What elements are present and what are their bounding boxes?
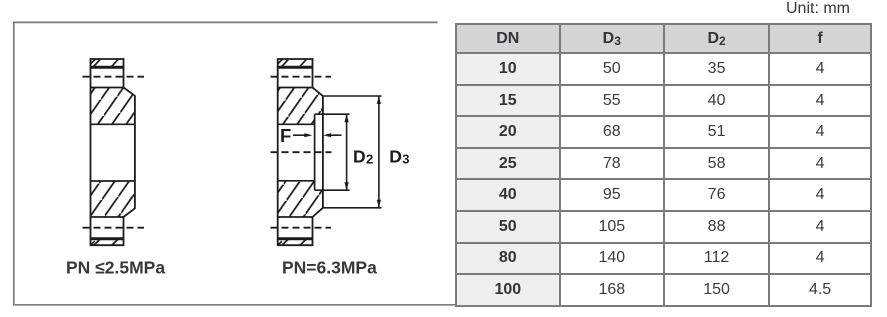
flange body hatch top [91,88,135,125]
rim hatch band top [91,59,118,67]
rim/body junction line bottom [278,216,313,218]
rim/body junction line bottom [91,216,124,218]
svg-text:PN ≤2.5MPa: PN ≤2.5MPa [66,257,165,277]
svg-text:D: D [389,146,402,166]
flange outline with raised face [278,59,323,245]
frame border [14,22,456,304]
D3 extension bottom [323,207,382,209]
D2 arrow down [344,182,348,190]
D2 dimension line [346,114,348,190]
bore line top [278,123,315,125]
unit label [786,0,850,18]
D3 arrow down [377,200,381,208]
svg-text:2: 2 [366,151,373,166]
flange body hatch bottom [91,181,135,217]
dimension table [455,23,872,307]
rim hatch band bottom [278,239,306,245]
bore line bottom [91,180,135,182]
recess wall [314,114,316,190]
middle centerline [271,151,332,153]
bolt centerline top [83,76,145,78]
svg-text:3: 3 [402,151,409,166]
bore line bottom [278,180,315,182]
D2 arrow up [344,114,348,122]
rim band inner edge bottom (thick) [278,237,313,240]
svg-text:PN=6.3MPa: PN=6.3MPa [282,257,377,277]
D3 arrow up [377,96,381,104]
rim band inner edge bottom (thick) [91,237,124,240]
flange body hatch top [278,88,323,125]
F arrow left-pointing [323,133,331,137]
rim hatch band top [278,59,306,67]
F arrow right-pointing [304,133,312,137]
svg-text:F: F [280,125,291,146]
D3 extension top [323,95,382,97]
rim/body junction line top [278,87,313,89]
F dimension leader left [293,134,306,136]
F dimension leader right [329,134,342,136]
D3 dimension line [378,96,380,208]
recess bottom edge / D2 extension bottom [315,189,350,191]
flange outline [91,59,135,245]
svg-text:D: D [353,146,366,166]
flange body hatch bottom [278,181,323,217]
bolt centerline bottom [271,227,332,229]
bolt centerline bottom [83,227,145,229]
recess top edge / D2 extension top [315,113,350,115]
rim hatch band bottom [91,239,118,245]
bolt centerline top [271,76,332,78]
rim band inner edge top (thick) [278,66,313,69]
rim band inner edge top (thick) [91,66,124,69]
bore line top [91,123,135,125]
rim/body junction line top [91,87,124,89]
